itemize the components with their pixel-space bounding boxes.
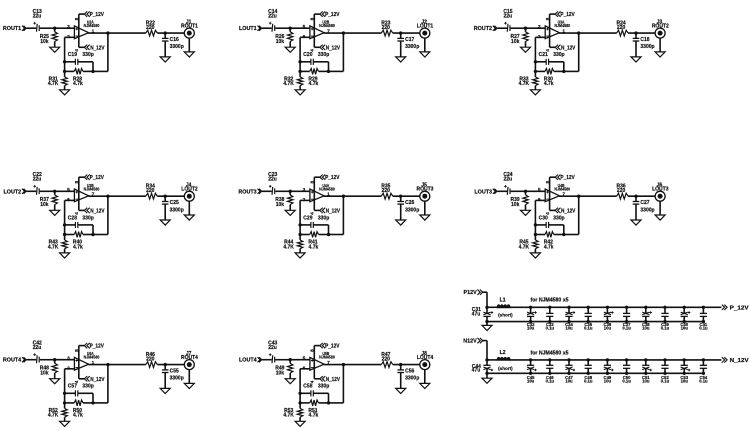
junction: [534, 223, 537, 226]
svg-text:5: 5: [303, 24, 306, 30]
junction: [91, 70, 94, 73]
svg-text:ROUT3: ROUT3: [238, 189, 256, 195]
wire: [393, 32, 420, 34]
wire connector shield: [424, 201, 426, 215]
wire -in node: [535, 36, 545, 38]
svg-text:C20: C20: [303, 52, 312, 58]
svg-text:3300p: 3300p: [170, 376, 184, 382]
junction: [327, 70, 330, 73]
power pin stub (pin 8 / pin 4): [310, 14, 316, 52]
svg-text:C28: C28: [68, 215, 77, 221]
capacitor C45 10u: [527, 358, 537, 383]
wire op-amp output: [559, 195, 617, 197]
capacitor C28 330p: [65, 215, 94, 228]
svg-text:220: 220: [617, 25, 626, 31]
svg-text:330p: 330p: [553, 215, 564, 221]
wire feedback from output: [342, 195, 345, 198]
ground: [295, 253, 305, 258]
svg-text:47u: 47u: [472, 312, 481, 318]
svg-text:10k: 10k: [276, 39, 285, 45]
connector J6 LOUT3: [652, 183, 669, 202]
wire feedback from output: [106, 195, 109, 198]
wire op-amp output: [324, 364, 382, 366]
svg-text:220: 220: [382, 25, 391, 31]
connector J4 LOUT2: [181, 183, 198, 202]
capacitor C25 3300p: [162, 196, 184, 220]
power P_12V: [79, 343, 105, 350]
wire: [563, 62, 565, 72]
capacitor C48 0.1u: [584, 358, 593, 383]
op-amp U5B NJM4580: [303, 351, 336, 371]
svg-text:22u: 22u: [33, 177, 42, 183]
resistor R45 4.7K to ground: [519, 235, 538, 253]
power pin stub (pin 8 / pin 4): [74, 346, 80, 384]
ground: [184, 52, 194, 57]
junction: [63, 401, 66, 404]
resistor R39 10k: [511, 191, 529, 210]
svg-text:22u: 22u: [268, 177, 277, 183]
svg-text:4.7k: 4.7k: [544, 244, 554, 250]
wire: [564, 234, 579, 236]
op-amp U4A NJM4580: [303, 183, 336, 203]
svg-text:8: 8: [545, 17, 551, 20]
svg-text:C58: C58: [303, 384, 312, 390]
svg-text:LOUT1: LOUT1: [417, 23, 434, 29]
resistor R31 4.7K to ground: [48, 71, 67, 89]
capacitor C52 0.1u: [661, 358, 670, 383]
svg-text:LOUT4: LOUT4: [239, 358, 257, 364]
wire: [92, 393, 94, 403]
ground: [396, 57, 406, 62]
svg-text:10u: 10u: [565, 378, 573, 383]
capacitor C38 10u: [642, 306, 652, 331]
svg-text:4.7k: 4.7k: [309, 81, 319, 87]
wire -in node: [65, 199, 75, 201]
power pin stub (pin 8 / pin 4): [74, 177, 80, 215]
wire: [511, 190, 526, 192]
svg-text:C56: C56: [405, 368, 414, 374]
svg-text:3300p: 3300p: [640, 207, 654, 213]
junction: [485, 372, 488, 375]
svg-text:4.7K: 4.7K: [519, 244, 530, 250]
junction: [485, 306, 488, 309]
resistor R33 4.7K to ground: [519, 71, 538, 89]
svg-text:N_12V: N_12V: [561, 208, 576, 214]
ground: [420, 383, 430, 388]
capacitor C46 0.1u: [546, 358, 555, 383]
resistor R35 220: [381, 184, 393, 200]
capacitor C36 10u: [604, 306, 614, 331]
svg-text:L2: L2: [500, 350, 506, 356]
svg-text:0.1u: 0.1u: [699, 325, 708, 330]
svg-text:C57: C57: [68, 384, 77, 390]
wire: [482, 291, 487, 293]
resistor R52 4.7K to ground: [48, 403, 67, 421]
svg-text:10u: 10u: [527, 325, 535, 330]
svg-text:P_12V: P_12V: [560, 12, 575, 18]
wire: [511, 27, 526, 29]
svg-text:22u: 22u: [33, 345, 42, 351]
junction: [53, 190, 56, 193]
svg-text:8: 8: [545, 180, 551, 183]
op-amp U3A NJM4580: [538, 20, 571, 40]
capacitor C19 330p: [65, 52, 94, 65]
junction: [53, 27, 56, 30]
svg-text:4.7K: 4.7K: [283, 244, 294, 250]
junction: [91, 401, 94, 404]
wire: [328, 393, 330, 403]
capacitor C31 47u: [472, 307, 493, 322]
wire -in node: [300, 36, 310, 38]
svg-text:C27: C27: [640, 200, 649, 206]
svg-text:4.7k: 4.7k: [73, 413, 83, 419]
wire: [329, 70, 344, 72]
junction: [298, 60, 301, 63]
wire rail: [510, 306, 721, 308]
ground: [160, 57, 170, 62]
wire feedback from output: [342, 31, 345, 34]
wire: [486, 373, 488, 378]
wire: [486, 322, 488, 326]
ground: [285, 379, 295, 384]
resistor R25 10k: [40, 28, 58, 47]
junction: [164, 195, 167, 198]
svg-text:22u: 22u: [268, 13, 277, 19]
connector J2 LOUT1: [417, 19, 434, 38]
power pin stub (pin 8 / pin 4): [74, 14, 80, 52]
junction: [524, 27, 527, 30]
svg-text:3300p: 3300p: [405, 207, 419, 213]
svg-text:C55: C55: [170, 368, 179, 374]
junction: [327, 401, 330, 404]
svg-text:N_12V: N_12V: [326, 208, 341, 214]
svg-text:ROUT2: ROUT2: [652, 23, 669, 29]
wire: [27, 359, 37, 361]
svg-text:N12V: N12V: [463, 339, 477, 345]
wire: [92, 225, 94, 235]
svg-text:P_12V: P_12V: [325, 344, 340, 350]
svg-text:P12V: P12V: [464, 290, 478, 296]
ground: [160, 220, 170, 225]
capacitor C17 3300p: [397, 33, 419, 57]
capacitor C13 22u: [33, 9, 42, 32]
svg-text:8: 8: [74, 180, 80, 183]
ground: [285, 47, 295, 52]
resistor R47 220: [381, 352, 393, 368]
wire to op-amp +in: [290, 27, 310, 29]
wire rail: [487, 306, 497, 308]
svg-text:330p: 330p: [82, 52, 93, 58]
net marker ROUT4 (input): [3, 357, 26, 364]
net marker LOUT1 (input): [239, 26, 262, 33]
power N_12V: [550, 45, 576, 52]
svg-text:P_12V: P_12V: [90, 344, 105, 350]
junction: [289, 27, 292, 30]
resistor R30 4.7k feedback: [535, 69, 563, 88]
resistor R42 4.7k feedback: [535, 232, 563, 251]
svg-text:LOUT2: LOUT2: [4, 189, 22, 195]
svg-text:C26: C26: [405, 200, 414, 206]
svg-text:10u: 10u: [681, 325, 689, 330]
ground: [521, 210, 531, 215]
resistor R32 4.7K to ground: [283, 71, 302, 89]
wire to op-amp +in: [290, 359, 310, 361]
capacitor C57 330p: [65, 384, 94, 397]
svg-text:10k: 10k: [40, 370, 49, 376]
wire: [564, 70, 579, 72]
svg-text:330p: 330p: [318, 52, 329, 58]
svg-text:P_12V: P_12V: [90, 12, 105, 18]
svg-text:L1: L1: [500, 298, 506, 304]
net marker LOUT2 (input): [4, 189, 27, 196]
net marker LOUT4 (input): [239, 357, 262, 364]
svg-text:NJM4580: NJM4580: [554, 186, 570, 191]
svg-text:for NJM4580 x5: for NJM4580 x5: [531, 350, 569, 356]
svg-text:0.1u: 0.1u: [546, 325, 555, 330]
svg-text:10u: 10u: [681, 378, 689, 383]
resistor R50 4.7k feedback: [65, 400, 93, 419]
junction: [562, 70, 565, 73]
junction: [399, 31, 402, 34]
svg-text:3: 3: [303, 187, 306, 193]
junction: [634, 31, 637, 34]
svg-text:0.1u: 0.1u: [622, 378, 631, 383]
wire: [393, 364, 420, 366]
wire: [329, 402, 344, 404]
svg-text:0.1u: 0.1u: [661, 325, 670, 330]
wire op-amp output: [324, 32, 382, 34]
svg-text:330p: 330p: [82, 384, 93, 390]
resistor R26 10k: [275, 28, 293, 47]
svg-text:C19: C19: [68, 52, 77, 58]
svg-text:for NJM4580 x5: for NJM4580 x5: [531, 298, 569, 304]
ground: [631, 220, 641, 225]
svg-text:10k: 10k: [276, 202, 285, 208]
wire -in node: [300, 199, 310, 201]
svg-text:P_12V: P_12V: [730, 305, 749, 311]
svg-text:3300p: 3300p: [170, 44, 184, 50]
net marker LOUT3 (input): [474, 189, 497, 196]
svg-text:10u: 10u: [642, 378, 650, 383]
capacitor C20 330p: [300, 52, 329, 65]
wire: [328, 225, 330, 235]
op-amp U2A NJM4580: [67, 20, 100, 40]
wire feedback from output: [106, 31, 109, 34]
svg-text:N_12V: N_12V: [326, 377, 341, 383]
svg-text:LOUT3: LOUT3: [474, 189, 492, 195]
svg-text:5: 5: [67, 187, 70, 193]
wire -in node: [65, 368, 75, 370]
svg-text:0.1u: 0.1u: [622, 325, 631, 330]
svg-text:(short): (short): [498, 312, 513, 317]
svg-text:P_12V: P_12V: [325, 12, 340, 18]
wire feedback from output: [342, 363, 345, 366]
svg-text:330p: 330p: [318, 384, 329, 390]
svg-text:0.1u: 0.1u: [584, 325, 593, 330]
wire: [157, 195, 184, 197]
wire: [275, 27, 290, 29]
capacitor C44 47u: [472, 360, 493, 374]
svg-text:ROUT4: ROUT4: [3, 358, 21, 364]
power P_12V: [79, 11, 105, 18]
wire: [262, 190, 272, 192]
power P_12V: [314, 11, 340, 18]
svg-text:N_12V: N_12V: [90, 208, 105, 214]
wire feedback from output: [577, 195, 580, 198]
svg-text:P_12V: P_12V: [560, 175, 575, 181]
svg-text:22u: 22u: [268, 345, 277, 351]
svg-text:3: 3: [67, 355, 70, 361]
svg-text:8: 8: [310, 17, 316, 20]
svg-text:P_12V: P_12V: [90, 175, 105, 181]
resistor R37 10k: [40, 191, 58, 210]
junction: [485, 358, 488, 361]
power pin stub (pin 8 / pin 4): [545, 14, 551, 52]
svg-text:10k: 10k: [40, 39, 49, 45]
ground: [184, 383, 194, 388]
junction: [91, 233, 94, 236]
ground: [631, 57, 641, 62]
wire: [328, 62, 330, 72]
power P_12V: [314, 175, 340, 182]
wire: [40, 359, 55, 361]
ground: [60, 253, 70, 258]
connector J1 ROUT1: [181, 19, 198, 38]
wire: [497, 27, 507, 29]
capacitor C21 330p: [535, 52, 564, 65]
junction: [63, 233, 66, 236]
junction: [298, 233, 301, 236]
capacitor C23 22u: [268, 172, 277, 195]
junction: [289, 358, 292, 361]
svg-text:4.7K: 4.7K: [283, 413, 294, 419]
capacitor C50 0.1u: [622, 358, 631, 383]
capacitor C32 10u: [527, 306, 537, 331]
junction: [63, 223, 66, 226]
capacitor C49 10u: [604, 358, 614, 383]
ground: [482, 325, 492, 330]
svg-text:C25: C25: [170, 200, 179, 206]
power N_12V: [79, 208, 105, 215]
wire op-amp output: [88, 364, 146, 366]
svg-text:ROUT4: ROUT4: [181, 355, 198, 361]
svg-text:4.7k: 4.7k: [73, 244, 83, 250]
junction: [562, 233, 565, 236]
junction: [399, 363, 402, 366]
resistor R46 220: [146, 352, 158, 368]
resistor R29 4.7k feedback: [300, 69, 328, 88]
power P_12V: [550, 175, 576, 182]
net marker N_12V (supply output): [722, 357, 749, 364]
wire feedback from output: [577, 31, 580, 34]
svg-text:4.7K: 4.7K: [519, 81, 530, 87]
svg-text:NJM4580: NJM4580: [84, 23, 100, 28]
svg-text:4.7K: 4.7K: [283, 81, 294, 87]
wire to op-amp +in: [55, 359, 75, 361]
ground: [285, 210, 295, 215]
ground: [60, 421, 70, 426]
net marker ROUT3 (input): [238, 189, 261, 196]
capacitor C35 0.1u: [584, 306, 593, 331]
svg-text:N_12V: N_12V: [326, 45, 341, 51]
junction: [524, 190, 527, 193]
capacitor C51 10u: [642, 358, 652, 383]
power N_12V: [550, 208, 576, 215]
capacitor C47 10u: [565, 358, 575, 383]
svg-text:NJM4580: NJM4580: [84, 186, 100, 191]
svg-text:330p: 330p: [553, 52, 564, 58]
capacitor C15 22u: [503, 9, 512, 32]
capacitor C55 3300p: [162, 365, 184, 389]
capacitor C58 330p: [300, 384, 329, 397]
capacitor C43 22u: [268, 341, 277, 364]
ground: [60, 90, 70, 95]
net marker P_12V (supply output): [722, 305, 749, 312]
svg-text:4.7K: 4.7K: [48, 81, 59, 87]
capacitor C24 22u: [503, 172, 512, 195]
ground: [420, 52, 430, 57]
power P_12V: [314, 343, 340, 350]
resistor R22 220: [146, 20, 158, 36]
svg-text:ROUT2: ROUT2: [474, 26, 492, 32]
junction: [634, 195, 637, 198]
svg-text:C17: C17: [405, 37, 414, 43]
ground: [420, 215, 430, 220]
junction: [63, 70, 66, 73]
ground: [530, 90, 540, 95]
svg-text:8: 8: [310, 349, 316, 352]
capacitor C40 10u: [680, 306, 690, 331]
svg-text:NJM4580: NJM4580: [319, 355, 335, 360]
wire: [157, 32, 184, 34]
svg-text:22u: 22u: [503, 13, 512, 19]
svg-text:C29: C29: [303, 215, 312, 221]
wire: [497, 190, 507, 192]
ground: [295, 421, 305, 426]
power N_12V: [314, 376, 340, 383]
svg-text:8: 8: [74, 349, 80, 352]
wire op-amp output: [559, 32, 617, 34]
svg-text:ROUT3: ROUT3: [417, 187, 434, 193]
svg-text:4.7k: 4.7k: [309, 244, 319, 250]
resistor R53 4.7K to ground: [283, 403, 302, 421]
wire op-amp output: [88, 195, 146, 197]
resistor R23 220: [381, 20, 393, 36]
wire: [329, 234, 344, 236]
wire to op-amp +in: [526, 27, 546, 29]
wire: [27, 27, 37, 29]
ground: [655, 215, 665, 220]
svg-text:22u: 22u: [503, 177, 512, 183]
svg-text:NJM4580: NJM4580: [319, 186, 335, 191]
ground: [396, 388, 406, 393]
capacitor C41 0.1u: [699, 306, 708, 331]
ground: [295, 90, 305, 95]
wire connector shield: [188, 201, 190, 215]
connector J7 ROUT4: [181, 351, 198, 370]
wire feedback from output: [106, 363, 109, 366]
wire connector shield: [188, 38, 190, 52]
ground: [655, 52, 665, 57]
svg-text:10u: 10u: [604, 325, 612, 330]
svg-text:220: 220: [382, 188, 391, 194]
svg-text:C30: C30: [539, 215, 548, 221]
wire: [628, 32, 655, 34]
svg-text:0.1u: 0.1u: [699, 378, 708, 383]
resistor R24 220: [617, 20, 629, 36]
svg-text:8: 8: [74, 17, 80, 20]
svg-text:10u: 10u: [642, 325, 650, 330]
